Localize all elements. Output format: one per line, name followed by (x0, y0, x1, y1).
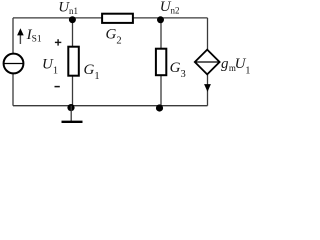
wire right vertical (207, 18, 209, 106)
node dot bottom left (under G1) (67, 104, 74, 111)
svg-text:g: g (221, 56, 229, 72)
current source IS1 (circle with bar) (4, 54, 24, 74)
resistor G2 (horizontal box in top wire) (102, 14, 133, 23)
label gmU1 (221, 56, 251, 77)
ground (62, 106, 83, 122)
svg-text:1: 1 (245, 66, 250, 77)
minus sign U1 (55, 86, 60, 88)
resistor G1 (vertical box) (68, 47, 79, 76)
plus sign U1 (55, 39, 61, 45)
svg-text:G1: G1 (84, 62, 100, 82)
node Un2 dot (157, 16, 164, 23)
svg-text:G3: G3 (170, 60, 186, 80)
current direction arrow for IS1 (17, 28, 24, 44)
wire left vertical lower (12, 73, 14, 106)
node dot bottom right (under G3) (156, 104, 163, 111)
controlled source gmU1 (diamond) (195, 50, 220, 75)
svg-text:U1: U1 (42, 57, 58, 77)
svg-text:G2: G2 (106, 27, 122, 47)
arrow of controlled source (204, 84, 211, 92)
wire top (13, 17, 208, 19)
svg-text:Un2: Un2 (160, 0, 180, 16)
node Un1 dot (69, 16, 76, 23)
wire Un1 branch (72, 18, 74, 106)
wire bottom (13, 105, 208, 107)
svg-text:Un1: Un1 (58, 0, 78, 16)
wire left vertical upper (12, 18, 14, 54)
resistor G3 (vertical box) (156, 49, 166, 75)
wire Un2 branch (160, 18, 162, 106)
svg-text:IS1: IS1 (26, 27, 42, 45)
